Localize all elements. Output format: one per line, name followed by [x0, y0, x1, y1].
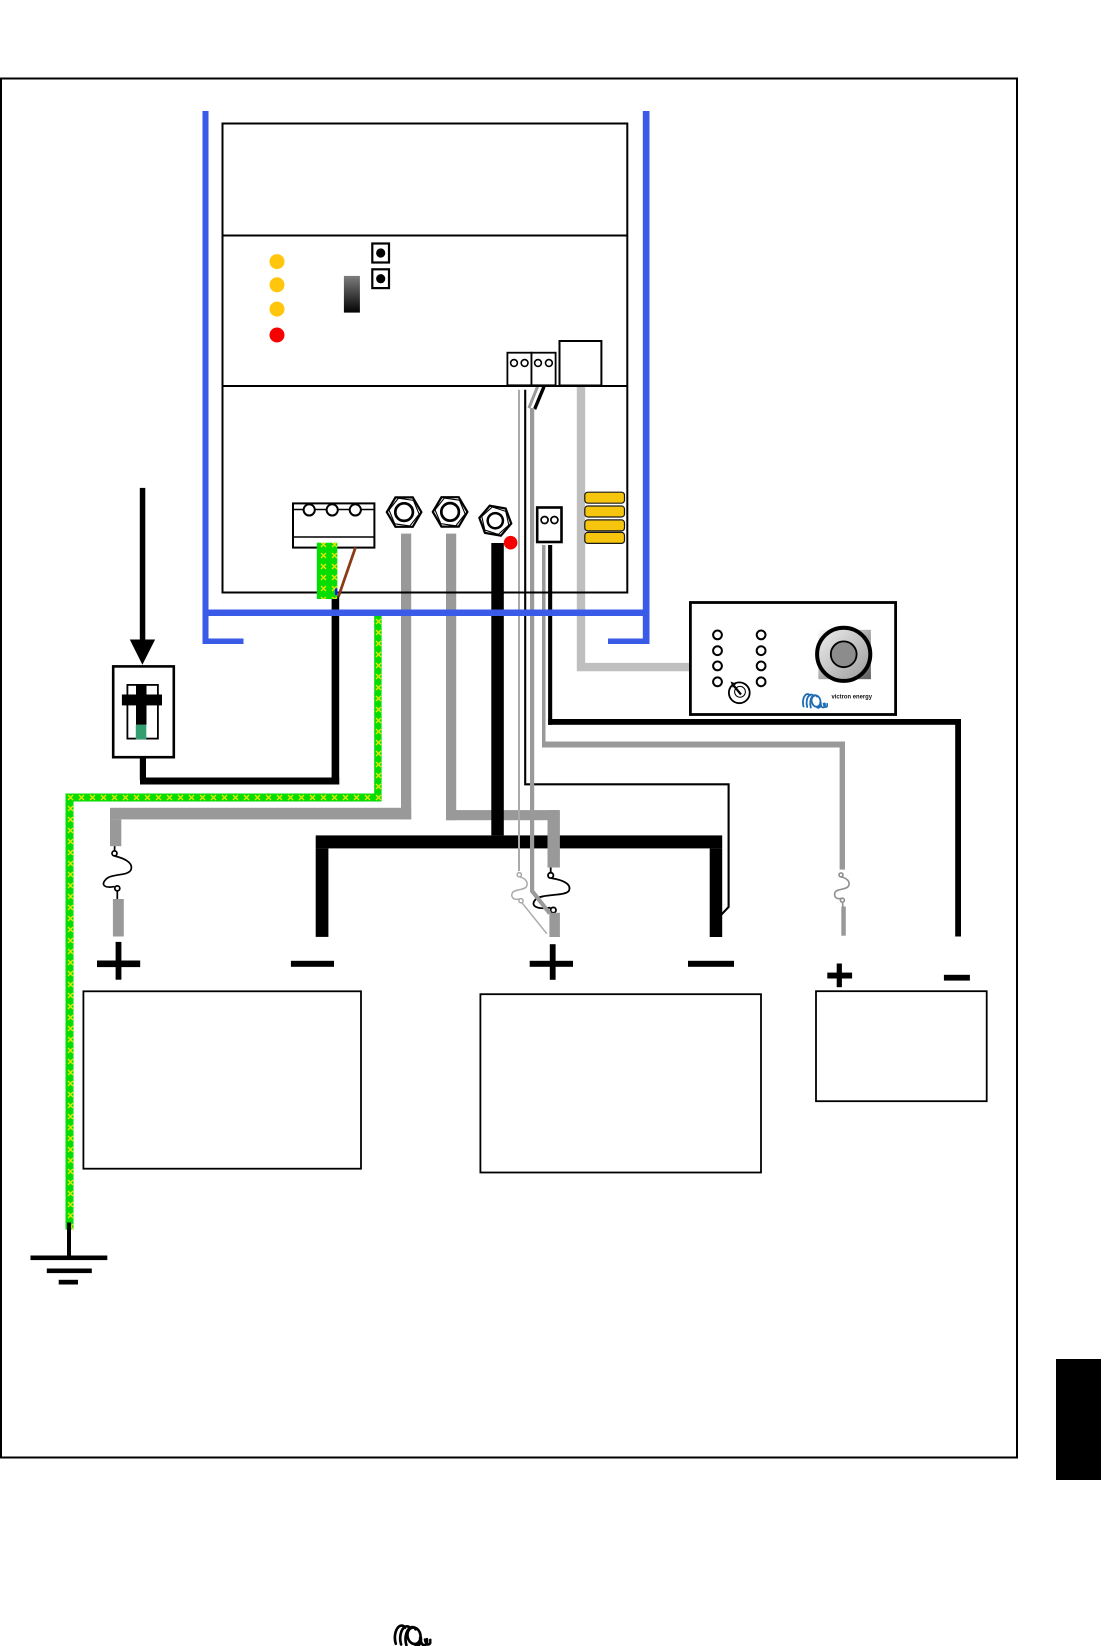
ground lead black: [67, 1223, 71, 1258]
fuse holder gold bar 2: [585, 506, 625, 517]
blue right foot: [608, 639, 650, 645]
wire: thin black voltage sense -: [525, 390, 728, 915]
wire: green PE horizontal run to left: [66, 794, 382, 802]
fuse F4 (sense, gray): [512, 873, 547, 934]
wire: green PE vertical down to ground: [66, 794, 74, 1230]
relay box: [560, 341, 602, 386]
cable gland 3: [477, 504, 514, 537]
house battery plus symbol: [530, 944, 573, 980]
fuse holder gold bar 3: [585, 520, 625, 531]
wire: gray battery1 + cable (gland1 down): [401, 534, 411, 820]
wire: black vertical from mains fuse box: [140, 757, 146, 780]
red indicator dot: [504, 536, 518, 550]
LED yellow 2: [270, 277, 285, 292]
victron spiral logo bottom: [395, 1626, 431, 1646]
green PE terminal strip: [317, 543, 338, 599]
AC terminal block: [293, 503, 374, 547]
small battery box: [816, 991, 987, 1101]
charger enclosure box: [223, 124, 628, 593]
wire: gray stub to house +: [549, 913, 560, 937]
wire: green PE wire from chassis (vertical below blue bar): [374, 613, 381, 802]
panel main dial: [818, 630, 871, 679]
sense connector block 1: [507, 353, 531, 386]
panel terminal circles right column: [757, 631, 766, 640]
LED red: [270, 328, 285, 343]
small battery minus symbol: [944, 975, 970, 981]
wire: black horizontal from mains fuse to AC-L: [140, 778, 339, 785]
cable gland 2: [433, 497, 468, 527]
svg-text:victron energy: victron energy: [832, 693, 873, 700]
wire: gray stub above house fuse: [548, 810, 560, 867]
blue right vertical: [643, 111, 650, 644]
fuse holder gold bar 1: [585, 492, 625, 503]
fuse F2 (house +): [533, 868, 569, 913]
wire: light gray remote panel cable: [581, 387, 691, 668]
page border frame: [1, 79, 1017, 1458]
wire: gray temp-sense to house + (diagonal from connector): [529, 386, 538, 408]
black side tab: [1056, 1359, 1101, 1480]
blue chassis bracket: left vertical: [203, 111, 209, 644]
wire: black minus bus: [316, 835, 723, 848]
sense connector block 2: [532, 353, 556, 386]
cable gland 1: [387, 497, 422, 527]
panel terminal circles left column: [713, 631, 765, 687]
wire: gray bus to starter battery: [110, 808, 411, 820]
wire: black down to starter minus: [316, 848, 329, 937]
wire: gray stub to starter +: [113, 899, 124, 937]
fuse F1 (starter +): [103, 846, 131, 899]
wire: gray stub to small battery +: [841, 907, 846, 936]
panel trim potentiometer: [729, 682, 750, 703]
fuse element green tip: [136, 725, 147, 740]
wire: black minus cable from gland3: [491, 543, 504, 835]
wire: gray battery2 + cable (gland2 down): [446, 534, 456, 821]
brown AC wire: [338, 547, 355, 596]
fuse F3 (small battery +): [835, 873, 850, 907]
AC supply arrow: [140, 488, 146, 640]
house battery box: [480, 994, 761, 1172]
wire: black AC-L from green terminal down: [332, 596, 340, 785]
dip switch: [344, 276, 360, 313]
blue horizontal bar: [203, 610, 650, 617]
wire: gray to small battery +: [542, 545, 546, 746]
wire: thin gray voltage sense +: [518, 390, 520, 871]
push button 2: [372, 269, 389, 288]
fuse element cross: [122, 695, 162, 706]
LED yellow 3: [270, 302, 285, 317]
temp sense connector: [537, 508, 561, 543]
starter battery minus symbol: [291, 961, 334, 967]
LED yellow 1: [270, 254, 285, 269]
victron logo on panel: [803, 694, 827, 708]
blue AC wire tick: [335, 589, 337, 596]
remote panel box: [690, 603, 895, 715]
charger section divider 1: [223, 235, 628, 237]
wire: black down to house minus: [710, 848, 723, 937]
ground symbol: [31, 1256, 108, 1285]
house battery minus symbol: [688, 961, 734, 967]
wire: black to small battery -: [548, 545, 552, 725]
starter battery plus symbol: [97, 942, 140, 980]
fuse holder gold bar 4: [585, 532, 625, 543]
wire: gray bus to house battery: [446, 810, 558, 820]
charger section divider 2: [223, 385, 628, 387]
blue left foot: [203, 639, 244, 645]
wire: gray stub above starter fuse: [110, 819, 121, 846]
starter battery box: [83, 991, 361, 1168]
push button 1: [372, 244, 389, 263]
mains fuse box: [113, 666, 174, 757]
small battery plus symbol: [827, 964, 852, 988]
